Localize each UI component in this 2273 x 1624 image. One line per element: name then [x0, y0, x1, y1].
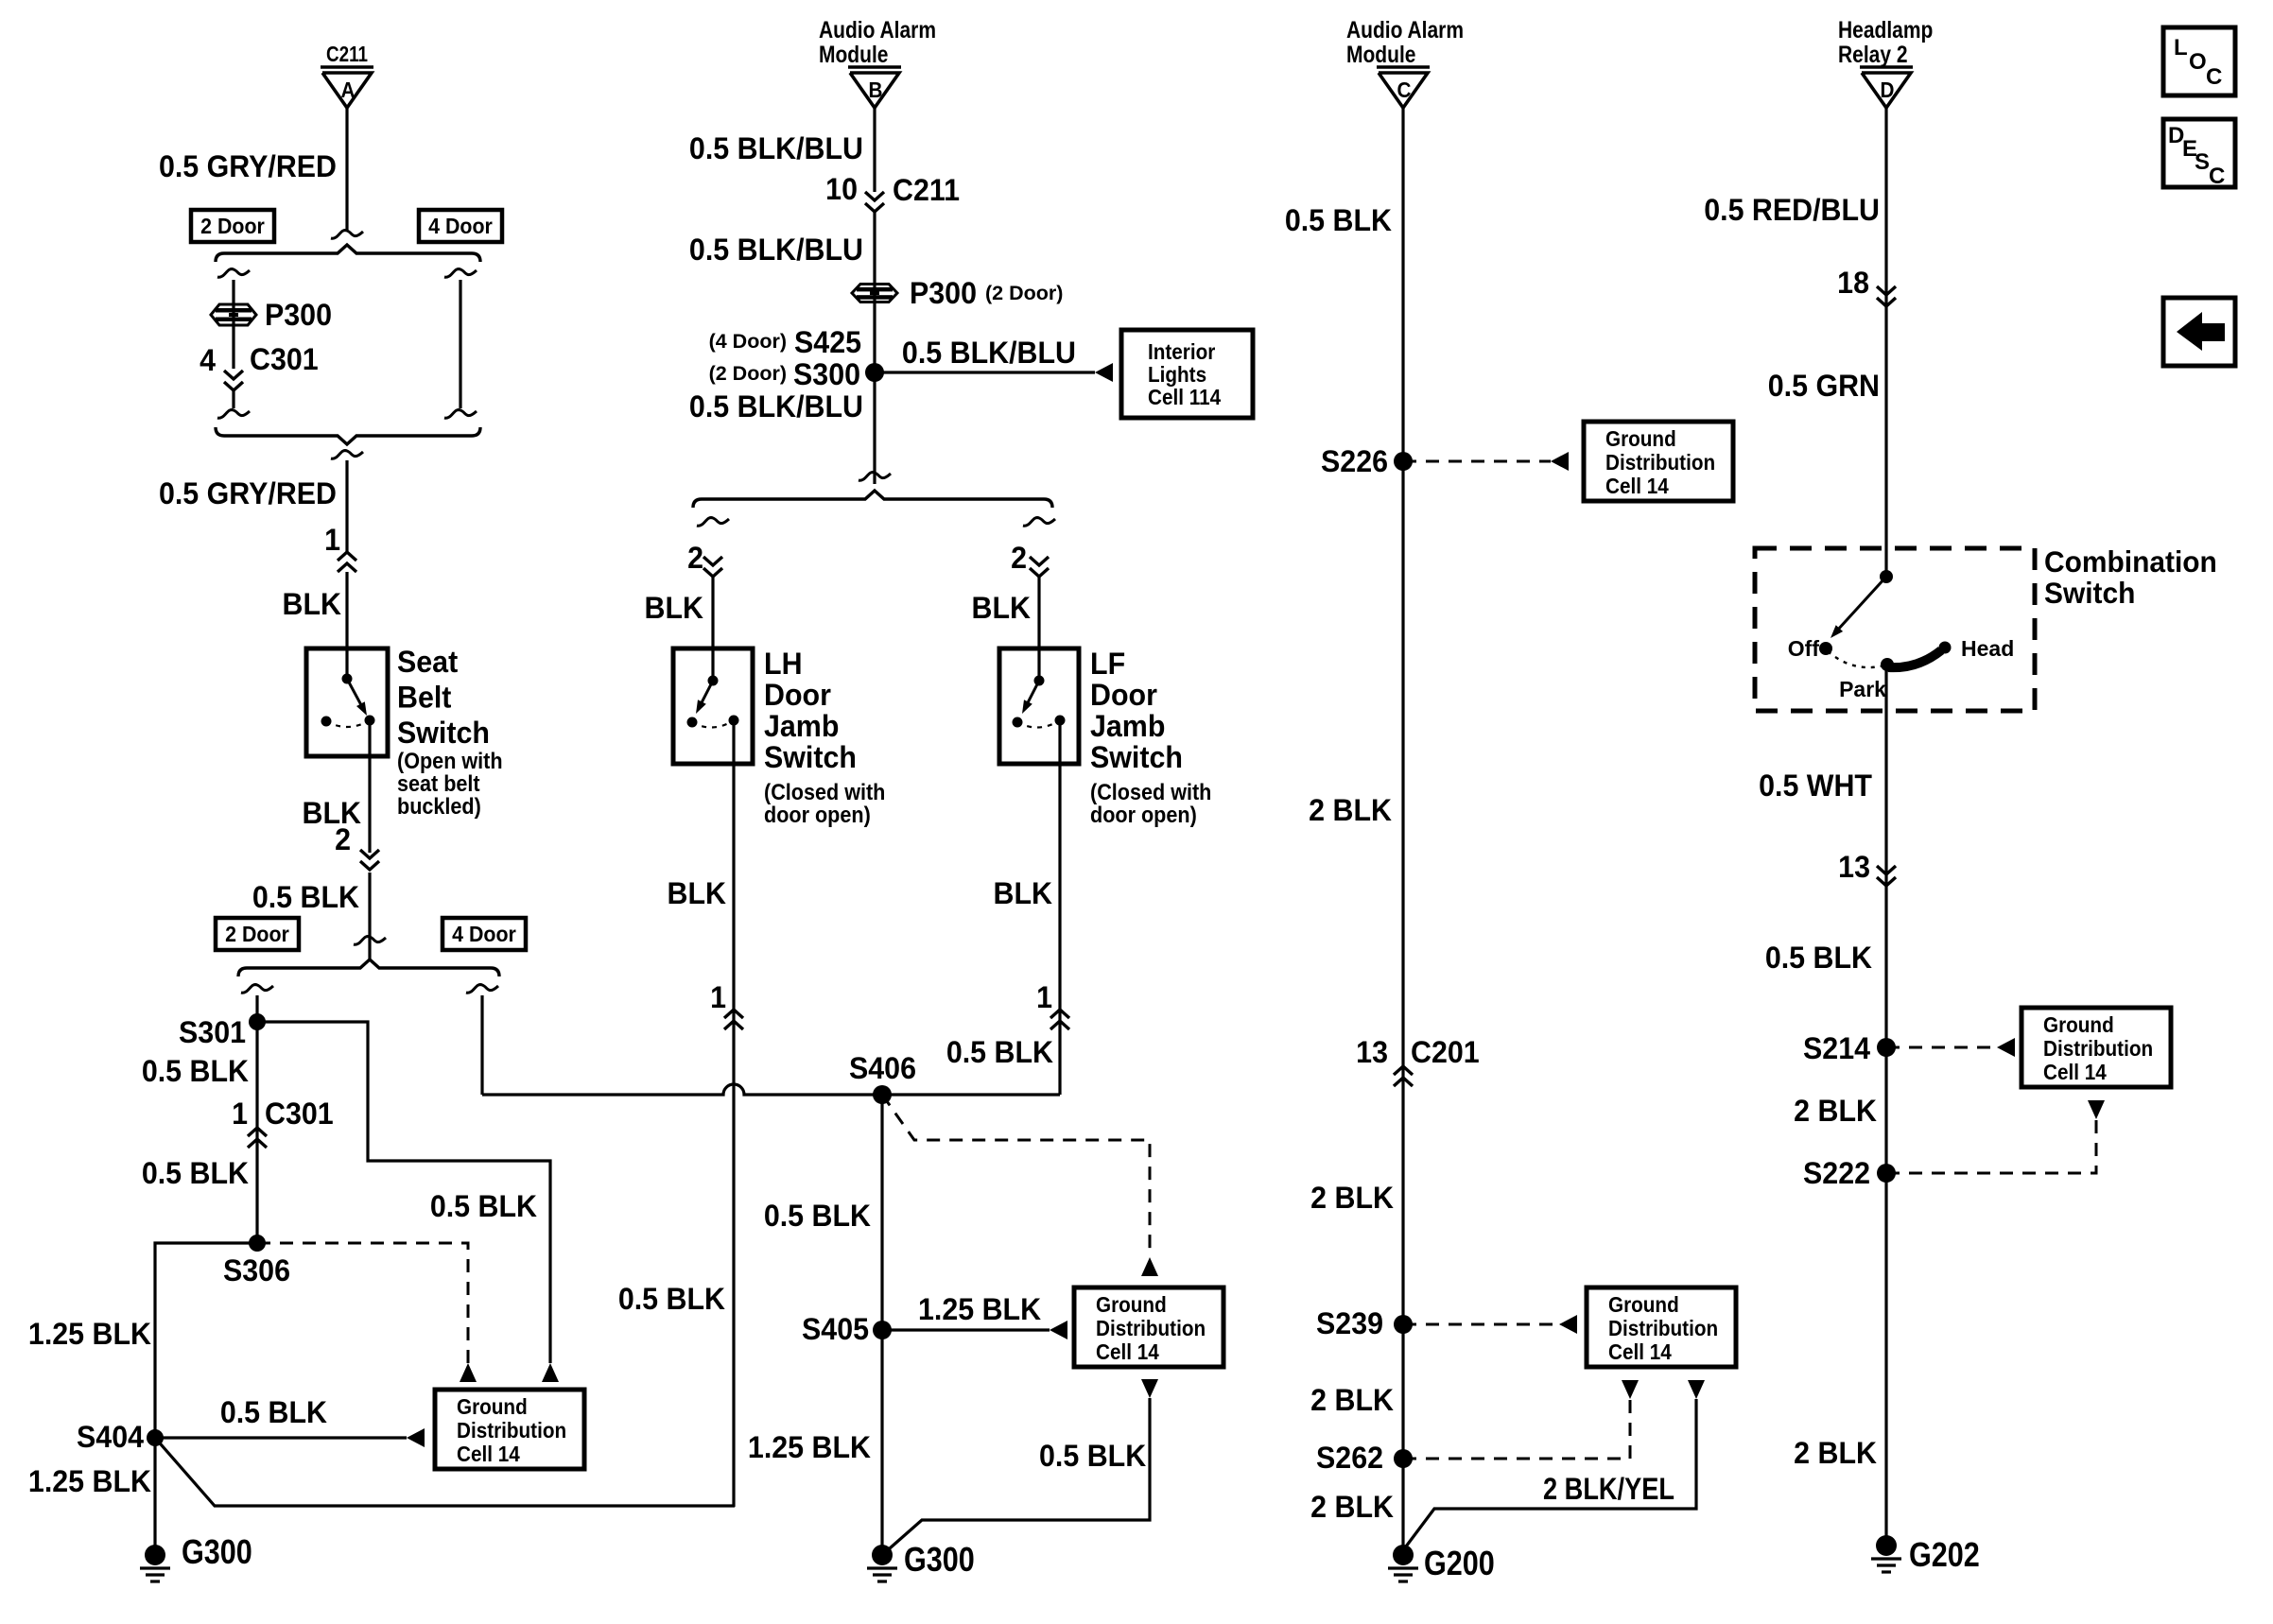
svg-text:Audio Alarm: Audio Alarm	[819, 16, 936, 43]
svg-text:Cell 14: Cell 14	[2043, 1060, 2108, 1084]
svg-text:13: 13	[1838, 850, 1870, 884]
svg-text:Module: Module	[819, 41, 889, 67]
svg-text:BLK: BLK	[303, 796, 362, 830]
svg-text:S404: S404	[77, 1420, 145, 1454]
svg-text:0.5 WHT: 0.5 WHT	[1759, 769, 1872, 803]
svg-text:0.5 BLK/BLU: 0.5 BLK/BLU	[689, 131, 863, 165]
svg-text:B: B	[869, 78, 883, 102]
svg-text:C: C	[2209, 164, 2225, 189]
svg-text:0.5 BLK/BLU: 0.5 BLK/BLU	[902, 336, 1076, 370]
svg-text:Off: Off	[1788, 636, 1820, 661]
svg-text:BLK: BLK	[668, 876, 727, 910]
svg-text:G300: G300	[904, 1542, 975, 1580]
svg-text:C: C	[2206, 64, 2222, 90]
svg-text:C201: C201	[1411, 1035, 1480, 1069]
svg-text:C211: C211	[326, 43, 368, 66]
svg-text:1.25 BLK: 1.25 BLK	[28, 1464, 152, 1498]
svg-text:Audio Alarm: Audio Alarm	[1346, 16, 1464, 43]
svg-text:S406: S406	[849, 1051, 916, 1085]
svg-text:door open): door open)	[764, 802, 871, 827]
svg-text:Cell 14: Cell 14	[1096, 1339, 1160, 1364]
svg-text:4: 4	[200, 343, 217, 377]
svg-text:(2 Door): (2 Door)	[709, 362, 787, 385]
svg-text:O: O	[2189, 49, 2207, 75]
svg-text:0.5 BLK: 0.5 BLK	[1285, 203, 1393, 237]
svg-text:1.25 BLK: 1.25 BLK	[918, 1292, 1042, 1326]
svg-text:0.5 BLK: 0.5 BLK	[142, 1156, 250, 1190]
svg-text:0.5 BLK: 0.5 BLK	[252, 880, 360, 914]
svg-text:Relay 2: Relay 2	[1838, 41, 1908, 67]
svg-text:Distribution: Distribution	[1605, 450, 1715, 475]
svg-text:1.25 BLK: 1.25 BLK	[28, 1317, 152, 1351]
svg-text:L: L	[2174, 35, 2188, 60]
svg-text:0.5 BLK: 0.5 BLK	[946, 1035, 1054, 1069]
svg-text:0.5 BLK: 0.5 BLK	[1039, 1439, 1147, 1473]
svg-text:2: 2	[1011, 541, 1027, 575]
svg-text:Switch: Switch	[2044, 576, 2135, 610]
svg-text:0.5 GRN: 0.5 GRN	[1768, 369, 1880, 403]
svg-text:Distribution: Distribution	[2043, 1036, 2153, 1061]
svg-text:Switch: Switch	[397, 716, 490, 750]
svg-text:Door: Door	[1090, 678, 1157, 712]
svg-text:Distribution: Distribution	[457, 1418, 566, 1443]
svg-text:Park: Park	[1839, 677, 1886, 701]
svg-text:2 Door: 2 Door	[200, 214, 265, 238]
svg-text:Ground: Ground	[1608, 1292, 1679, 1317]
svg-text:0.5 BLK: 0.5 BLK	[220, 1395, 328, 1429]
svg-text:1.25 BLK: 1.25 BLK	[748, 1430, 872, 1464]
svg-text:P300: P300	[910, 276, 977, 310]
svg-text:Ground: Ground	[1605, 426, 1676, 451]
svg-text:Headlamp: Headlamp	[1838, 16, 1933, 43]
svg-text:S262: S262	[1316, 1441, 1383, 1475]
svg-text:0.5 RED/BLU: 0.5 RED/BLU	[1704, 193, 1880, 227]
svg-text:Ground: Ground	[2043, 1012, 2114, 1037]
svg-text:13: 13	[1356, 1035, 1388, 1069]
svg-text:C211: C211	[893, 173, 960, 207]
svg-text:0.5 BLK/BLU: 0.5 BLK/BLU	[689, 233, 863, 267]
svg-text:BLK: BLK	[283, 587, 342, 621]
svg-text:S306: S306	[223, 1253, 290, 1287]
svg-text:Cell 14: Cell 14	[1605, 474, 1670, 498]
svg-text:1: 1	[324, 523, 340, 557]
svg-text:Cell 14: Cell 14	[1608, 1339, 1673, 1364]
svg-text:D: D	[1881, 78, 1895, 102]
svg-text:2: 2	[687, 541, 703, 575]
svg-text:Jamb: Jamb	[764, 709, 839, 743]
svg-text:Ground: Ground	[457, 1394, 528, 1419]
svg-text:2 BLK: 2 BLK	[1310, 1181, 1394, 1215]
svg-text:4 Door: 4 Door	[452, 922, 516, 946]
svg-text:BLK: BLK	[645, 591, 704, 625]
svg-text:Belt: Belt	[397, 681, 452, 715]
svg-text:Interior: Interior	[1148, 339, 1216, 364]
svg-text:2 BLK: 2 BLK	[1310, 1383, 1394, 1417]
svg-text:Switch: Switch	[1090, 740, 1183, 774]
svg-text:buckled): buckled)	[397, 793, 481, 819]
svg-text:S300: S300	[793, 357, 860, 391]
svg-text:G200: G200	[1424, 1546, 1495, 1583]
svg-text:18: 18	[1837, 266, 1869, 300]
svg-text:0.5 BLK: 0.5 BLK	[764, 1199, 872, 1233]
svg-text:S405: S405	[802, 1312, 869, 1346]
svg-text:1: 1	[232, 1097, 248, 1131]
svg-text:2 BLK/YEL: 2 BLK/YEL	[1543, 1473, 1674, 1507]
svg-text:0.5 BLK: 0.5 BLK	[142, 1054, 250, 1088]
svg-text:C301: C301	[265, 1097, 334, 1131]
svg-text:door open): door open)	[1090, 802, 1197, 827]
svg-text:0.5 BLK: 0.5 BLK	[1765, 941, 1873, 975]
svg-text:(4 Door): (4 Door)	[709, 330, 787, 353]
svg-text:G300: G300	[182, 1534, 252, 1572]
svg-text:0.5 BLK: 0.5 BLK	[618, 1282, 726, 1316]
svg-text:C301: C301	[250, 342, 319, 376]
svg-text:2: 2	[335, 822, 351, 856]
svg-text:S226: S226	[1321, 444, 1388, 478]
svg-text:0.5 BLK/BLU: 0.5 BLK/BLU	[689, 389, 863, 423]
svg-text:Cell 114: Cell 114	[1148, 385, 1222, 409]
svg-text:C: C	[1397, 78, 1412, 102]
svg-text:4 Door: 4 Door	[428, 214, 493, 238]
svg-text:P300: P300	[265, 298, 332, 332]
svg-text:Distribution: Distribution	[1608, 1316, 1718, 1340]
svg-text:S214: S214	[1803, 1031, 1871, 1065]
svg-text:2 BLK: 2 BLK	[1794, 1436, 1877, 1470]
svg-text:Lights: Lights	[1148, 362, 1206, 387]
svg-text:10: 10	[825, 172, 858, 206]
svg-text:Switch: Switch	[764, 740, 857, 774]
svg-text:2 Door: 2 Door	[225, 922, 289, 946]
svg-text:Distribution: Distribution	[1096, 1316, 1206, 1340]
svg-text:0.5 GRY/RED: 0.5 GRY/RED	[159, 476, 337, 510]
svg-text:2 BLK: 2 BLK	[1310, 1490, 1394, 1524]
svg-text:Ground: Ground	[1096, 1292, 1167, 1317]
svg-text:Door: Door	[764, 678, 831, 712]
svg-text:G202: G202	[1909, 1537, 1980, 1575]
svg-text:S222: S222	[1803, 1156, 1870, 1190]
svg-text:BLK: BLK	[972, 591, 1032, 625]
svg-text:1: 1	[1036, 980, 1052, 1014]
svg-text:BLK: BLK	[994, 876, 1053, 910]
svg-text:LF: LF	[1090, 647, 1125, 681]
svg-text:2 BLK: 2 BLK	[1794, 1094, 1877, 1128]
svg-text:Jamb: Jamb	[1090, 709, 1165, 743]
svg-text:LH: LH	[764, 647, 803, 681]
svg-text:Combination: Combination	[2044, 544, 2217, 579]
svg-text:Module: Module	[1346, 41, 1416, 67]
svg-text:Head: Head	[1961, 636, 2014, 661]
svg-text:0.5 BLK: 0.5 BLK	[430, 1189, 538, 1223]
svg-text:Seat: Seat	[397, 645, 459, 679]
svg-text:(2 Door): (2 Door)	[985, 282, 1063, 304]
svg-text:A: A	[341, 78, 356, 102]
svg-text:S: S	[2195, 149, 2210, 175]
svg-text:2 BLK: 2 BLK	[1309, 793, 1392, 827]
svg-text:1: 1	[710, 980, 726, 1014]
svg-text:S239: S239	[1316, 1306, 1383, 1340]
svg-text:Cell 14: Cell 14	[457, 1442, 521, 1466]
svg-text:S425: S425	[794, 325, 861, 359]
svg-text:S301: S301	[179, 1015, 246, 1049]
svg-text:0.5 GRY/RED: 0.5 GRY/RED	[159, 149, 337, 183]
